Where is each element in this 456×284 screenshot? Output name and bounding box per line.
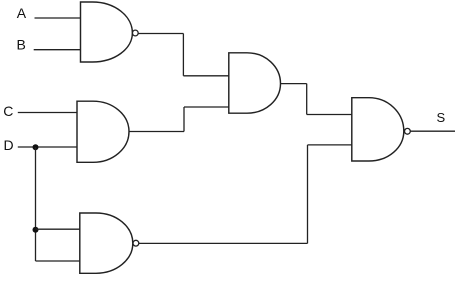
wire U2 output vertical up xyxy=(183,107,185,132)
wire D vertical down to bottom gate xyxy=(35,147,37,261)
wire bottom nand bottom input xyxy=(36,260,80,262)
svg-text:S: S xyxy=(437,110,446,125)
nand-gate U1 top-left xyxy=(81,2,133,62)
svg-text:A: A xyxy=(17,5,27,21)
nand-gate U4 bottom xyxy=(80,213,133,273)
junction dot on D xyxy=(33,144,39,150)
wire U3 output vertical down xyxy=(306,84,308,115)
nand-gate U5 output stage xyxy=(352,98,404,161)
wire U3 output horizontal xyxy=(281,83,307,85)
wire D input xyxy=(18,146,77,148)
svg-text:B: B xyxy=(17,37,26,53)
wire into U3 bottom input xyxy=(184,106,229,108)
wire U4 output horizontal xyxy=(139,242,308,244)
wire U1 output vertical down xyxy=(182,34,184,76)
wire U2 output horizontal xyxy=(129,131,184,133)
and-gate U2 middle-left xyxy=(77,101,129,162)
wire U1 output horizontal xyxy=(138,33,183,35)
bubble U4 xyxy=(133,240,139,246)
bubble U5 xyxy=(405,128,411,134)
wire B input xyxy=(34,49,81,51)
bubble U1 xyxy=(132,30,138,36)
wire C input xyxy=(18,112,77,114)
svg-text:D: D xyxy=(4,137,14,153)
junction dot on bottom gate input xyxy=(33,227,39,233)
wire into U5 bottom input xyxy=(308,144,352,146)
wire A input xyxy=(35,17,82,19)
wire into U5 top input xyxy=(307,114,352,116)
wire bottom nand top input xyxy=(36,228,80,230)
and-gate U3 second level xyxy=(229,53,281,113)
wire U5 output xyxy=(410,130,455,132)
svg-text:C: C xyxy=(3,103,13,119)
wire U4 output vertical up xyxy=(307,145,309,244)
wire into U3 top input xyxy=(183,75,228,77)
